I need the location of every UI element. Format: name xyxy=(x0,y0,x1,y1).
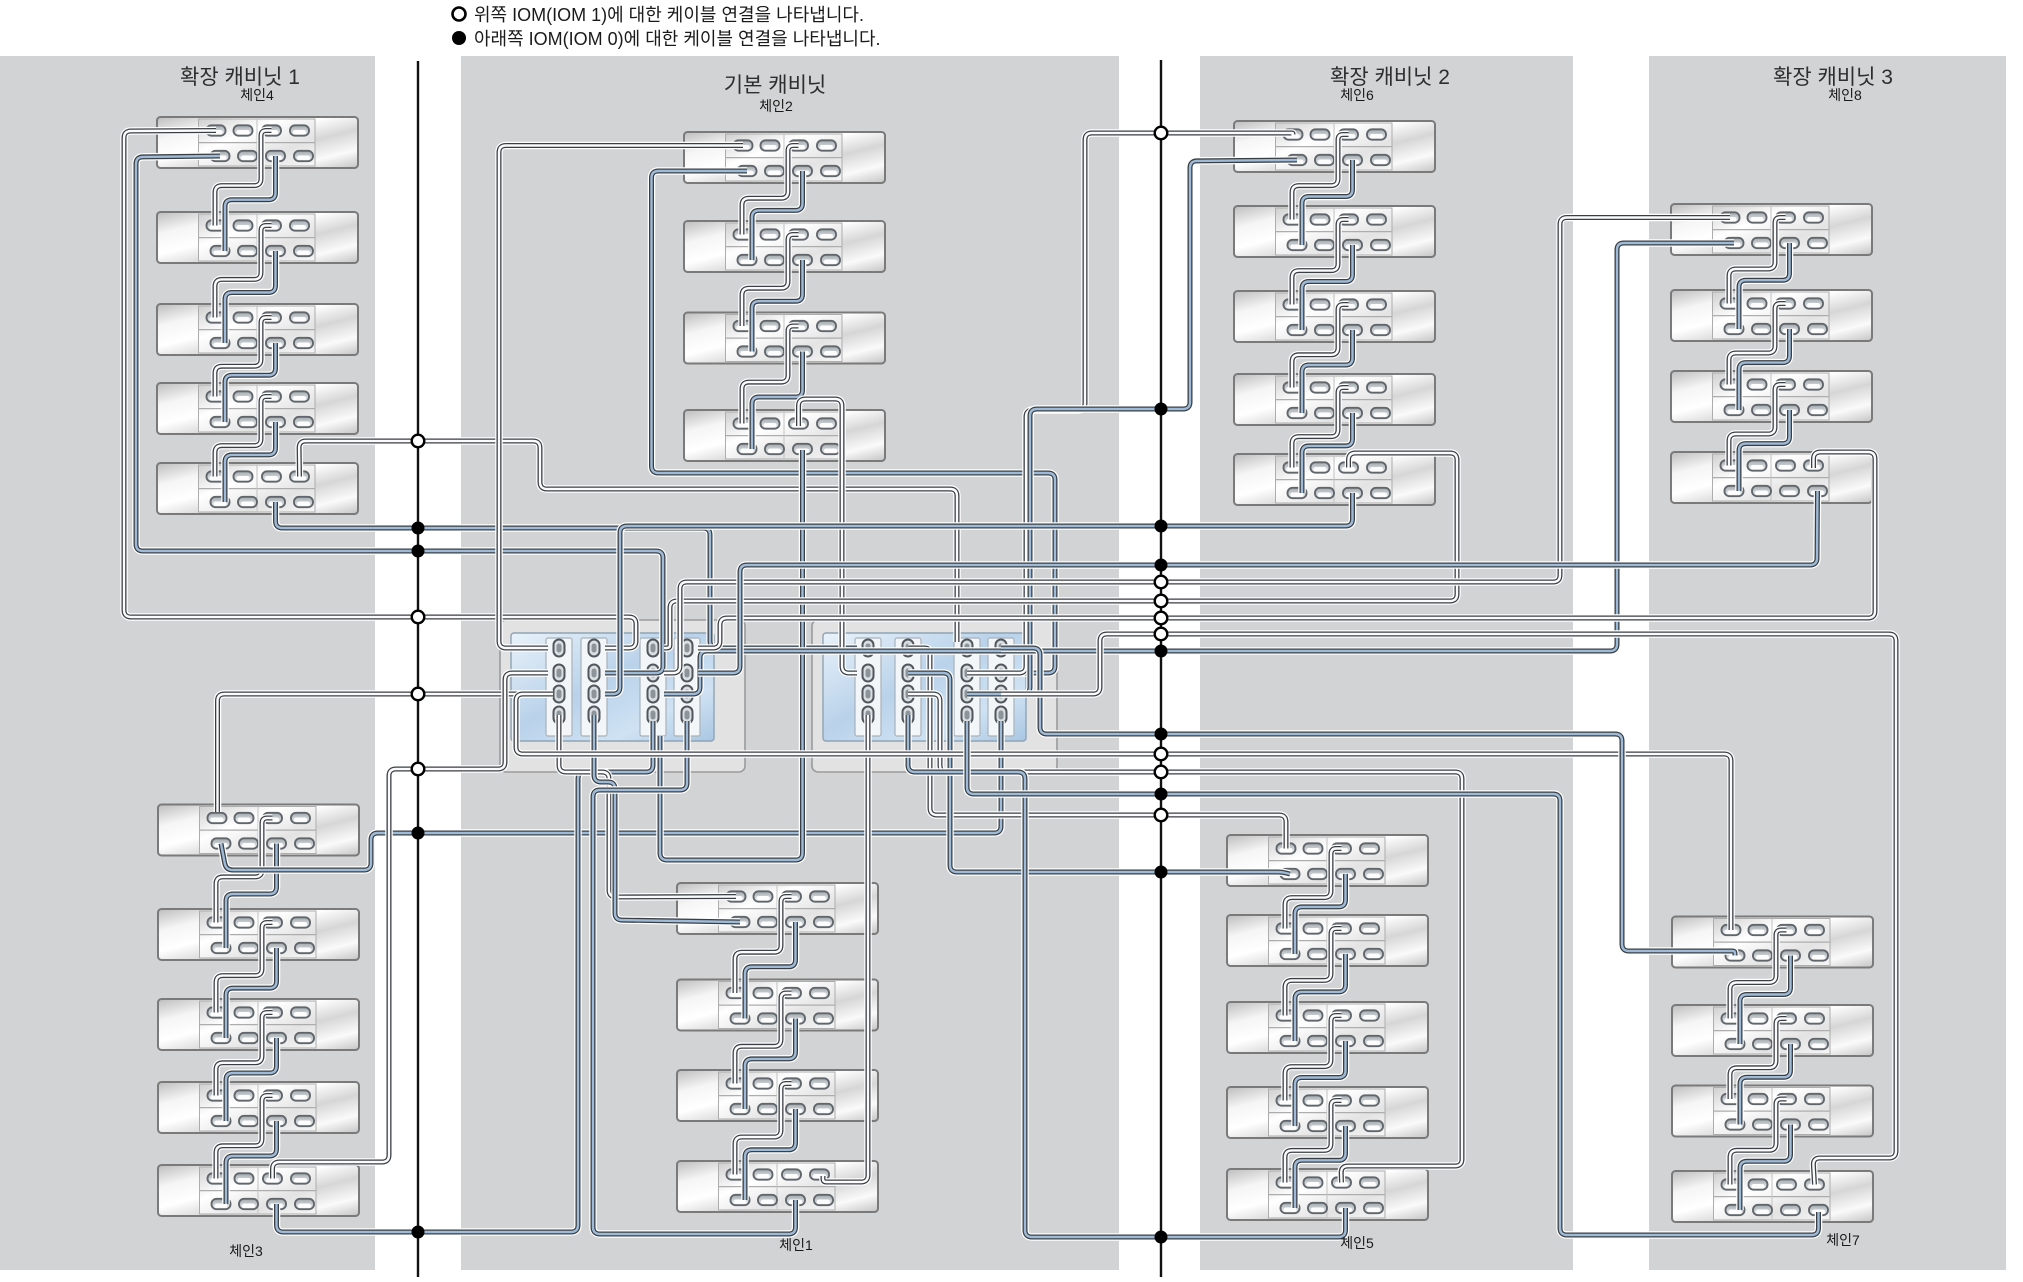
cable 83 (IOM1 white) xyxy=(698,452,1875,648)
cable 71 (IOM1 white) xyxy=(823,715,868,1182)
controller U1 HBA slot 3 xyxy=(640,638,666,736)
svg-text:체인7: 체인7 xyxy=(1826,1232,1860,1248)
junction rail1 y=551 xyxy=(412,545,425,558)
cable 76 (IOM0 blue) xyxy=(605,493,1353,694)
cabinet panel: expansion cabinet 1 xyxy=(0,56,375,1270)
cable 77 (IOM1 white) xyxy=(908,648,1286,849)
disk shelf chain4 DE #1 xyxy=(157,117,358,168)
disk shelf chain1 DE #1 xyxy=(677,883,878,934)
svg-text:체인5: 체인5 xyxy=(1340,1235,1374,1251)
cable 29 (IOM1 white) xyxy=(1292,135,1349,220)
svg-text:확장 캐비닛 2: 확장 캐비닛 2 xyxy=(1330,66,1450,89)
cable 45 (IOM1 white) xyxy=(1729,218,1786,304)
cable 78 (IOM0 blue) xyxy=(908,673,1290,874)
cable 34 (IOM0 blue) xyxy=(1302,330,1353,413)
cable 56 (IOM0 blue) xyxy=(1740,1125,1791,1211)
junction rail2 y=651 xyxy=(1155,645,1168,658)
cable 4 (IOM0 blue) xyxy=(225,251,276,343)
cable 7 (IOM1 white) xyxy=(215,397,272,477)
junction rail1 y=617 xyxy=(412,611,425,624)
disk shelf chain5 DE #3 xyxy=(1227,1002,1428,1053)
disk shelf chain8 DE #3 xyxy=(1671,371,1872,422)
cable 61 (IOM1 white) xyxy=(218,694,549,812)
junction rail2 y=133 xyxy=(1155,127,1168,140)
cable 15 (IOM1 white) xyxy=(216,1096,273,1179)
controller U2 HBA slot 1 xyxy=(855,638,881,736)
svg-text:확장 캐비닛 1: 확장 캐비닛 1 xyxy=(180,66,300,89)
junction rail2 y=794 xyxy=(1155,788,1168,801)
junction rail2 y=872 xyxy=(1155,866,1168,879)
cable 50 (IOM0 blue) xyxy=(1739,410,1790,491)
cable 11 (IOM1 white) xyxy=(216,923,273,1013)
disk shelf chain4 DE #3 xyxy=(157,304,358,355)
cable 70 (IOM0 blue) xyxy=(594,715,740,922)
disk shelf chain6 DE #4 xyxy=(1234,374,1435,425)
disk shelf chain4 DE #2 xyxy=(157,212,358,263)
cable 79 (IOM1 white) xyxy=(908,694,1462,1183)
cable 86 (IOM0 blue) xyxy=(1001,648,1735,956)
disk shelf chain3 DE #1 xyxy=(158,805,359,856)
cable 62 (IOM0 blue) xyxy=(221,721,1001,870)
cable 14 (IOM0 blue) xyxy=(226,1038,277,1121)
cable 58 (IOM0 blue) xyxy=(136,156,663,673)
cable 24 (IOM0 blue) xyxy=(745,922,796,1019)
disk shelf chain2 DE #1 xyxy=(684,132,885,183)
cable 88 (IOM0 blue) xyxy=(967,721,1819,1235)
cable 68 (IOM0 blue) xyxy=(660,450,803,860)
junction rail2 y=815 xyxy=(1155,809,1168,822)
svg-text:체인1: 체인1 xyxy=(779,1237,813,1253)
cabinet boundary rail 1 xyxy=(417,61,419,1277)
disk shelf chain3 DE #5 xyxy=(158,1165,359,1216)
disk shelf chain6 DE #1 xyxy=(1234,121,1435,172)
junction rail1 y=1232 xyxy=(412,1226,425,1239)
cable 6 (IOM0 blue) xyxy=(225,343,276,422)
legend: IOM0 filled circle xyxy=(452,31,466,45)
disk shelf chain5 DE #4 xyxy=(1227,1087,1428,1138)
cable 21 (IOM1 white) xyxy=(742,326,799,424)
svg-text:체인4: 체인4 xyxy=(240,87,274,103)
disk shelf chain2 DE #4 xyxy=(684,410,885,461)
cable 52 (IOM0 blue) xyxy=(1740,956,1791,1045)
disk shelf chain6 DE #3 xyxy=(1234,291,1435,342)
legend: IOM1 open circle xyxy=(453,8,466,21)
disk shelf chain8 DE #1 xyxy=(1671,204,1872,255)
cable 8 (IOM0 blue) xyxy=(225,422,276,502)
cable 66 (IOM0 blue) xyxy=(652,171,1056,673)
cable 80 (IOM0 blue) xyxy=(908,715,1346,1237)
cable 67 (IOM1 white) xyxy=(799,399,858,673)
disk shelf chain1 DE #4 xyxy=(677,1161,878,1212)
disk shelf chain7 DE #2 xyxy=(1672,1005,1873,1056)
cable 13 (IOM1 white) xyxy=(216,1013,273,1096)
junction rail2 y=634 xyxy=(1155,628,1168,641)
cable 75 (IOM1 white) xyxy=(664,453,1457,648)
disk shelf chain5 DE #5 xyxy=(1227,1169,1428,1220)
disk shelf chain1 DE #3 xyxy=(677,1070,878,1121)
junction rail2 y=565 xyxy=(1155,559,1168,572)
cable 40 (IOM0 blue) xyxy=(1295,954,1346,1041)
junction rail2 y=601 xyxy=(1155,595,1168,608)
disk shelf chain3 DE #2 xyxy=(158,909,359,960)
disk shelf chain8 DE #4 xyxy=(1671,452,1872,503)
cable 19 (IOM1 white) xyxy=(742,235,799,327)
disk shelf chain4 DE #4 xyxy=(157,383,358,434)
disk shelf chain3 DE #4 xyxy=(158,1082,359,1133)
cable 16 (IOM0 blue) xyxy=(226,1121,277,1204)
junction rail2 y=409 xyxy=(1155,403,1168,416)
cable 43 (IOM1 white) xyxy=(1285,1101,1342,1183)
cable 44 (IOM0 blue) xyxy=(1295,1126,1346,1208)
cable 23 (IOM1 white) xyxy=(735,897,792,994)
cable 38 (IOM0 blue) xyxy=(1295,874,1346,954)
cable 55 (IOM1 white) xyxy=(1730,1099,1787,1185)
cable 47 (IOM1 white) xyxy=(1729,304,1786,385)
cabinet panel: base cabinet xyxy=(461,56,1119,1270)
cable 85 (IOM1 white) xyxy=(516,694,1731,930)
controller U1 chassis xyxy=(500,620,745,772)
controller U2 HBA slot 4 xyxy=(988,638,1014,736)
cable 2 (IOM0 blue) xyxy=(225,156,276,251)
cable 22 (IOM0 blue) xyxy=(752,352,803,450)
cable 82 (IOM0 blue) xyxy=(664,243,1734,694)
cable 3 (IOM1 white) xyxy=(215,226,272,318)
disk shelf chain5 DE #1 xyxy=(1227,835,1428,886)
cable 25 (IOM1 white) xyxy=(735,993,792,1084)
junction rail2 y=772 xyxy=(1155,766,1168,779)
disk shelf chain2 DE #3 xyxy=(684,313,885,364)
cable 1 (IOM1 white) xyxy=(215,131,272,226)
disk shelf chain3 DE #3 xyxy=(158,999,359,1050)
controller U2 HBA slot 2 xyxy=(895,638,921,736)
cable 33 (IOM1 white) xyxy=(1292,305,1349,388)
svg-text:체인8: 체인8 xyxy=(1828,87,1862,103)
junction rail1 y=694 xyxy=(412,688,425,701)
controller U2 HBA slot 3 xyxy=(954,638,980,736)
cable 46 (IOM0 blue) xyxy=(1739,243,1790,329)
junction rail2 y=582 xyxy=(1155,576,1168,589)
junction rail2 y=526 xyxy=(1155,520,1168,533)
disk shelf chain7 DE #4 xyxy=(1672,1171,1873,1222)
cable 81 (IOM1 white) xyxy=(664,218,1730,674)
cable 30 (IOM0 blue) xyxy=(1302,160,1353,245)
cable 36 (IOM0 blue) xyxy=(1302,413,1353,493)
cabinet panel: expansion cabinet 3 xyxy=(1649,56,2006,1270)
disk shelf chain7 DE #1 xyxy=(1672,917,1873,968)
cable 53 (IOM1 white) xyxy=(1730,1019,1787,1100)
junction rail2 y=734 xyxy=(1155,728,1168,741)
cable 39 (IOM1 white) xyxy=(1285,929,1342,1016)
cable 12 (IOM0 blue) xyxy=(226,948,277,1038)
cable 72 (IOM0 blue) xyxy=(593,721,796,1234)
cable 87 (IOM1 white) xyxy=(1001,634,1896,1185)
svg-text:확장 캐비닛 3: 확장 캐비닛 3 xyxy=(1773,66,1893,89)
cable 31 (IOM1 white) xyxy=(1292,220,1349,305)
cable 49 (IOM1 white) xyxy=(1729,385,1786,466)
junction rail1 y=441 xyxy=(412,435,425,448)
cable 32 (IOM0 blue) xyxy=(1302,245,1353,330)
cable 65 (IOM1 white) xyxy=(499,146,743,649)
cable 42 (IOM0 blue) xyxy=(1295,1041,1346,1126)
disk shelf chain6 DE #5 xyxy=(1234,454,1435,505)
junction rail1 y=528 xyxy=(412,522,425,535)
cable 26 (IOM0 blue) xyxy=(745,1019,796,1110)
cable 18 (IOM0 blue) xyxy=(752,171,803,260)
disk shelf chain2 DE #2 xyxy=(684,221,885,272)
controller U1 HBA slot 4 xyxy=(674,638,700,736)
junction rail2 y=618 xyxy=(1155,612,1168,625)
cabinet panel: expansion cabinet 2 xyxy=(1200,56,1573,1270)
cable 37 (IOM1 white) xyxy=(1285,849,1342,929)
junction rail2 y=1237 xyxy=(1155,1231,1168,1244)
cabinet boundary rail 2 xyxy=(1160,60,1162,1277)
cable 74 (IOM0 blue) xyxy=(967,160,1297,694)
cable 9 (IOM1 white) xyxy=(216,818,273,923)
cable 63 (IOM1 white) xyxy=(273,673,549,1179)
cable 69 (IOM1 white) xyxy=(559,715,736,897)
disk shelf chain6 DE #2 xyxy=(1234,206,1435,257)
cable 64 (IOM0 blue) xyxy=(277,721,654,1232)
cable 57 (IOM1 white) xyxy=(124,131,636,649)
cable 41 (IOM1 white) xyxy=(1285,1016,1342,1101)
svg-text:위쪽 IOM(IOM 1)에 대한 케이블 연결을 나타냅니: 위쪽 IOM(IOM 1)에 대한 케이블 연결을 나타냅니다. xyxy=(474,5,864,25)
junction rail1 y=833 xyxy=(412,827,425,840)
cable 48 (IOM0 blue) xyxy=(1739,329,1790,410)
disk shelf chain8 DE #2 xyxy=(1671,290,1872,341)
cable 10 (IOM0 blue) xyxy=(226,844,277,949)
disk shelf chain4 DE #5 xyxy=(157,463,358,514)
junction rail1 y=769 xyxy=(412,763,425,776)
svg-text:체인6: 체인6 xyxy=(1340,87,1374,103)
svg-text:체인3: 체인3 xyxy=(229,1243,263,1259)
svg-text:체인2: 체인2 xyxy=(759,98,793,114)
disk shelf chain1 DE #2 xyxy=(677,980,878,1031)
cable 17 (IOM1 white) xyxy=(742,146,799,235)
svg-text:기본 캐비닛: 기본 캐비닛 xyxy=(724,74,826,97)
cable 54 (IOM0 blue) xyxy=(1740,1044,1791,1125)
cable 59 (IOM1 white) xyxy=(299,441,957,642)
cable 28 (IOM0 blue) xyxy=(745,1109,796,1200)
cable 5 (IOM1 white) xyxy=(215,318,272,397)
controller U1 HBA slot 1 xyxy=(546,638,572,736)
disk shelf chain5 DE #2 xyxy=(1227,915,1428,966)
cable 60 (IOM0 blue) xyxy=(276,502,858,648)
cable 51 (IOM1 white) xyxy=(1730,930,1787,1019)
cable 27 (IOM1 white) xyxy=(735,1084,792,1175)
cable 73 (IOM1 white) xyxy=(967,133,1293,673)
controller U2 chassis xyxy=(812,620,1057,772)
svg-text:아래쪽 IOM(IOM 0)에 대한 케이블 연결을 나타냅: 아래쪽 IOM(IOM 0)에 대한 케이블 연결을 나타냅니다. xyxy=(474,29,881,49)
disk shelf chain7 DE #3 xyxy=(1672,1086,1873,1137)
cable 20 (IOM0 blue) xyxy=(752,260,803,352)
cable 35 (IOM1 white) xyxy=(1292,388,1349,468)
junction rail2 y=754 xyxy=(1155,748,1168,761)
controller U1 HBA slot 2 xyxy=(581,638,607,736)
cable 84 (IOM0 blue) xyxy=(698,491,1818,673)
